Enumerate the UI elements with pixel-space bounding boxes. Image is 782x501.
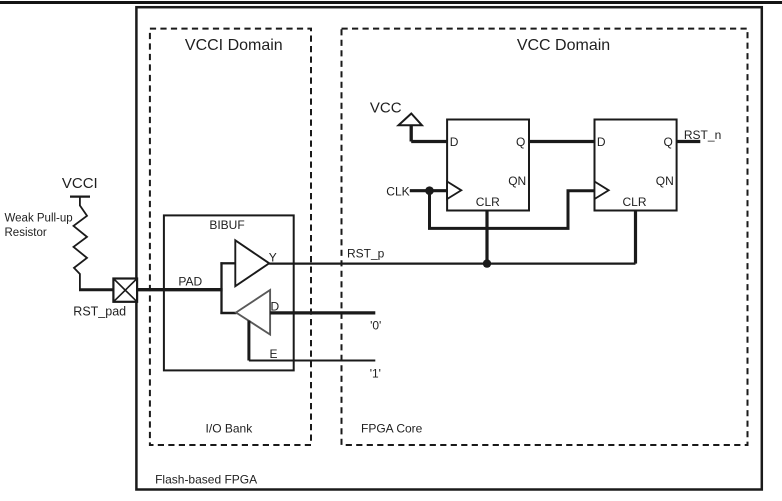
svg-text:'1': '1' — [370, 366, 381, 380]
svg-text:FPGA Core: FPGA Core — [361, 422, 423, 436]
svg-text:Resistor: Resistor — [5, 227, 47, 239]
svg-text:I/O Bank: I/O Bank — [206, 422, 254, 436]
svg-text:D: D — [597, 135, 606, 149]
svg-text:VCCI Domain: VCCI Domain — [185, 37, 283, 54]
svg-text:CLR: CLR — [622, 195, 646, 209]
svg-text:E: E — [270, 347, 278, 361]
svg-text:RST_n: RST_n — [684, 128, 721, 142]
svg-text:RST_p: RST_p — [347, 247, 385, 261]
svg-text:Flash-based FPGA: Flash-based FPGA — [155, 472, 257, 486]
svg-text:Q: Q — [664, 135, 673, 149]
svg-text:D: D — [450, 135, 459, 149]
svg-text:PAD: PAD — [178, 275, 202, 289]
svg-text:QN: QN — [656, 174, 674, 188]
svg-text:RST_pad: RST_pad — [73, 305, 126, 319]
svg-text:CLR: CLR — [476, 195, 500, 209]
svg-text:VCC: VCC — [370, 100, 402, 117]
svg-text:CLK: CLK — [386, 184, 409, 198]
svg-text:QN: QN — [508, 174, 526, 188]
svg-text:Weak Pull-up: Weak Pull-up — [5, 213, 73, 225]
svg-text:VCCI: VCCI — [62, 175, 98, 192]
svg-text:Y: Y — [269, 250, 277, 264]
svg-text:Q: Q — [516, 135, 525, 149]
svg-text:'0': '0' — [370, 319, 381, 333]
svg-text:BIBUF: BIBUF — [209, 218, 244, 232]
svg-text:VCC Domain: VCC Domain — [517, 37, 610, 54]
